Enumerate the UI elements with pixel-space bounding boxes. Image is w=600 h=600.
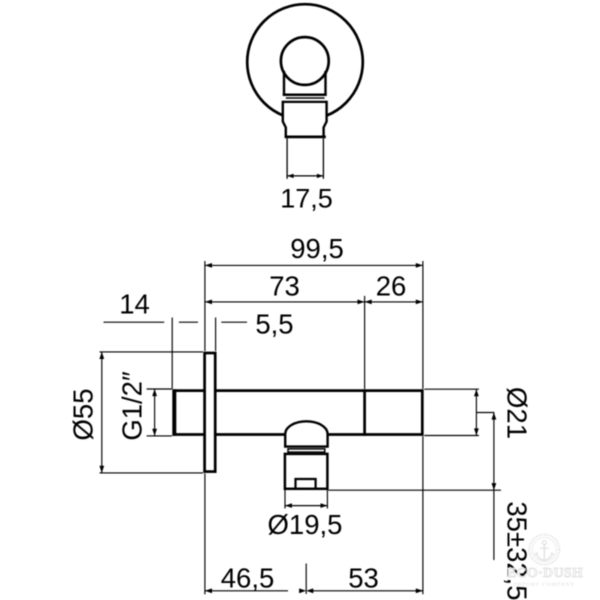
- svg-text:IMPORT COMPANY: IMPORT COMPANY: [513, 582, 574, 588]
- ext line left (above flange): [204, 261, 206, 351]
- ext line left (below flange): [204, 474, 206, 595]
- ext flange bottom left: [100, 472, 204, 474]
- dim 5,5 leader: [221, 321, 247, 323]
- dim 14 line: [104, 321, 165, 323]
- ext O19,5 left: [284, 490, 286, 509]
- ext G1/2 bottom: [147, 435, 172, 437]
- holder block top: [283, 101, 327, 103]
- ext O21 bottom: [424, 435, 479, 437]
- dim O21 line: [475, 389, 477, 435]
- white mask under neck and block: [283, 68, 327, 184]
- svg-text:73: 73: [269, 271, 300, 302]
- holder dome: [285, 421, 327, 446]
- ext G1/2 top: [147, 388, 172, 390]
- svg-text:17,5: 17,5: [280, 184, 333, 214]
- svg-text:Ø21: Ø21: [502, 387, 533, 439]
- svg-text:53: 53: [348, 563, 379, 594]
- ext holder bottom right: [329, 489, 502, 491]
- groove line: [286, 97, 325, 99]
- neck sides: [283, 71, 285, 96]
- holder groove: [288, 449, 325, 452]
- svg-text:Ø19,5: Ø19,5: [268, 509, 343, 540]
- dim 99,5 line: [205, 264, 423, 266]
- holder block sides with chamfer: [283, 101, 286, 137]
- lower tube sides: [286, 138, 288, 179]
- dim G1/2 line: [154, 389, 156, 436]
- ext O19,5 right: [326, 490, 328, 509]
- holder inner tab: [296, 479, 316, 489]
- watermark anchor: [535, 541, 554, 561]
- dim O19,5 line: [285, 505, 327, 507]
- svg-text:46,5: 46,5: [221, 563, 275, 594]
- svg-text:ECO·DUSH: ECO·DUSH: [507, 566, 583, 581]
- ext line right (above tube): [422, 261, 424, 389]
- dim O55 line: [101, 352, 103, 473]
- watermark emblem outer ring: [529, 535, 559, 565]
- dim 46,5 line: [205, 590, 288, 592]
- dim 73/26 line: [205, 301, 423, 303]
- svg-text:99,5: 99,5: [290, 233, 344, 264]
- ext middle bottom: [305, 564, 307, 595]
- holder block bottom: [285, 136, 326, 139]
- ext joint 73/26: [364, 296, 366, 389]
- small ball circle: [281, 37, 329, 85]
- svg-text:5,5: 5,5: [255, 309, 293, 340]
- left thread end bar: [172, 389, 176, 436]
- ext tube left end: [171, 318, 173, 389]
- big flange circle: [247, 4, 363, 120]
- wall flange rect: [205, 353, 216, 472]
- dim 14/5,5 middle dash: [179, 321, 198, 323]
- tube top: [173, 389, 423, 392]
- right end line: [421, 389, 424, 436]
- dim 53 line: [313, 590, 423, 592]
- dim 17,5 line: [287, 175, 323, 177]
- svg-text:G1/2″: G1/2″: [117, 371, 148, 441]
- joint line: [363, 389, 366, 436]
- ext line right (below tube): [422, 436, 424, 594]
- holder body block: [285, 454, 328, 489]
- dim 35 line: [493, 413, 495, 561]
- svg-text:26: 26: [376, 271, 407, 302]
- neck bottom line: [283, 94, 327, 97]
- 35 tick at tube axis: [476, 412, 494, 414]
- svg-text:14: 14: [119, 289, 150, 320]
- ext O21 top: [424, 388, 479, 390]
- ext flange right face: [215, 318, 217, 351]
- tube bottom: [173, 433, 423, 436]
- svg-text:Ø55: Ø55: [68, 389, 99, 441]
- watermark emblem inner ring: [532, 538, 556, 562]
- ext flange top left: [100, 351, 204, 353]
